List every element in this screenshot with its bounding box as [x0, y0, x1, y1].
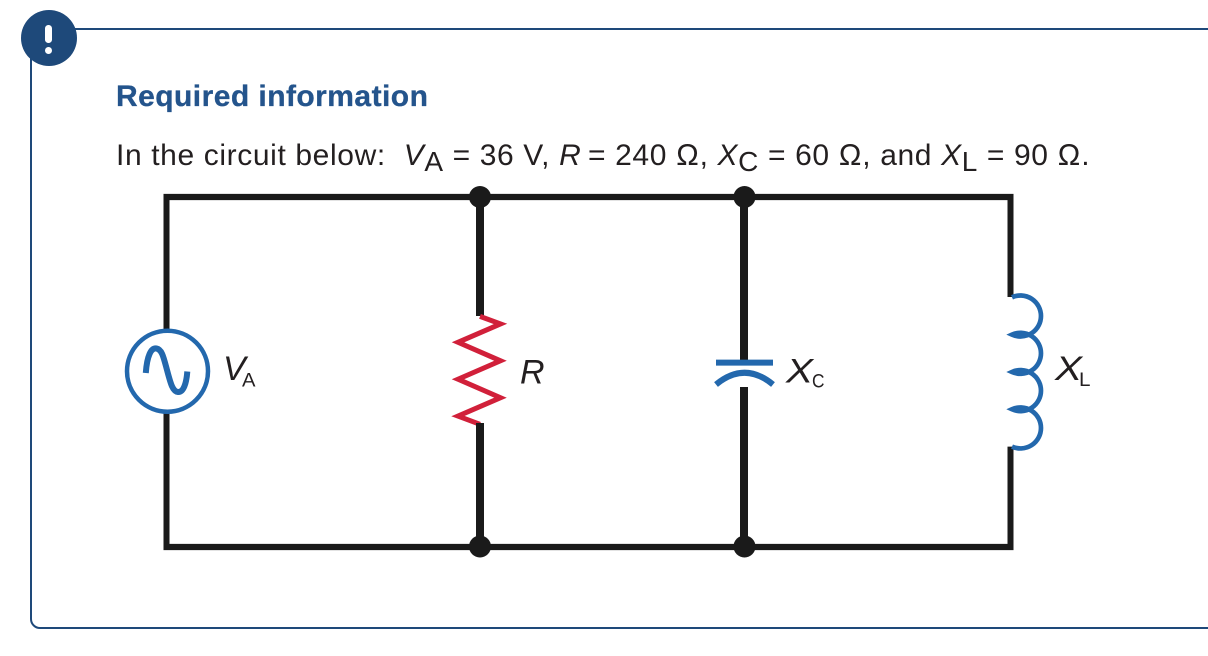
inductor XL: [1012, 295, 1041, 448]
capacitor XC: [716, 363, 773, 385]
resistor R: [458, 316, 501, 424]
node: top junction at R branch: [469, 186, 491, 208]
wire: resistor branch bottom stub: [476, 423, 484, 547]
node: top junction at C branch: [734, 186, 756, 208]
node: bottom junction at R branch: [469, 536, 491, 558]
label XL: [1054, 350, 1091, 391]
svg-text:A: A: [242, 371, 256, 392]
AC source VA: [127, 331, 208, 412]
wire: bottom rail: [164, 544, 1014, 550]
wire: capacitor branch bottom stub: [740, 387, 748, 547]
alert badge: [21, 10, 77, 66]
wire: resistor branch top stub: [476, 197, 484, 316]
heading: [116, 80, 428, 114]
problem statement: [116, 139, 1090, 173]
svg-text:X: X: [785, 352, 815, 390]
wire: right side lower stub (from inductor): [1008, 447, 1014, 550]
node: bottom junction at C branch: [734, 536, 756, 558]
svg-text:C: C: [812, 371, 825, 392]
wire: capacitor branch top stub: [740, 197, 748, 361]
label XC: [785, 352, 825, 392]
svg-text:L: L: [1079, 370, 1091, 391]
label VA: [223, 350, 256, 392]
wire: left side (source branch): [164, 195, 170, 550]
wire: right side upper stub (to inductor): [1008, 195, 1014, 298]
svg-text:R: R: [520, 354, 545, 392]
wire: top rail: [164, 194, 1014, 200]
